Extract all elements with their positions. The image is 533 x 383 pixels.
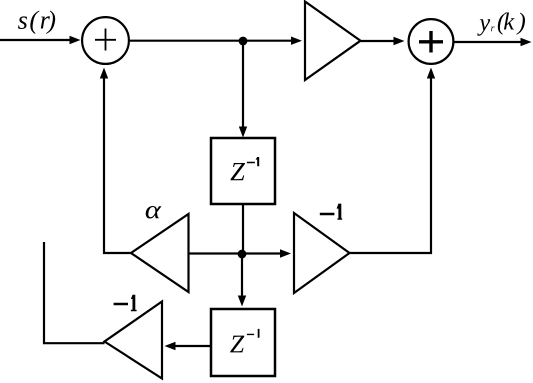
delay Z1 value label Z^-1 [231,157,260,180]
wire output from summer U2 [455,38,532,46]
amplifier A4 gain label minus one [114,295,137,311]
wire amplifier A1 to summer U2 [361,37,405,45]
wire node A to delay Z1 [239,41,247,138]
wire amplifier A4 open end [44,242,105,343]
wire amplifier A2 to summer U1 [100,68,131,254]
wire node B to delay Z2 [238,254,246,307]
delay Z2 [211,309,275,376]
wire amplifier A3 to summer U2 [350,68,436,254]
delay Z2 value label Z^-1 [230,329,259,353]
amplifier A3 gain label minus one [320,204,342,220]
amplifier A2 [131,214,189,292]
input label s(r) [18,11,55,35]
node B junction dot [238,250,247,259]
wire delay Z1 to node B [242,204,244,254]
amplifier A4 [105,302,163,379]
amplifier A3 [294,213,350,293]
wire delay Z2 to amplifier A4 [165,342,212,350]
wire input to summer U1 [0,36,81,44]
wire node B to amplifier A2 [189,252,243,254]
output label yr(k) [477,13,525,36]
wire node B to amplifier A3 [242,249,291,257]
wire summer U1 to amplifier A1 [130,37,302,45]
summer U2 [409,19,454,64]
amplifier A1 [305,2,361,81]
node A junction dot [239,37,248,46]
amplifier A2 gain label alpha [146,206,162,219]
summer U1 [82,17,129,64]
delay Z1 [211,138,275,204]
